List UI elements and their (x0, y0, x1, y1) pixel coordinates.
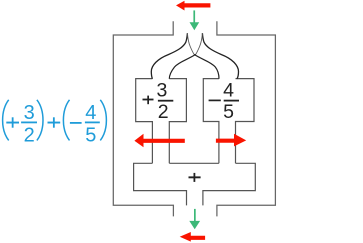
blue plus 1 (6, 122, 19, 124)
svg-text:4: 4 (85, 102, 96, 124)
right red arrow (value -4/5 crossed, points right) (216, 134, 246, 147)
left box (value box) left half + tube left wall down to plus box (136, 79, 153, 164)
svg-text:3: 3 (24, 102, 35, 124)
blue opening paren 2 (63, 100, 69, 141)
right box label: minus sign (209, 100, 221, 102)
blue closing paren 1 (37, 100, 43, 141)
svg-text:5: 5 (223, 101, 234, 123)
bottom green arrow (points down) (194, 209, 196, 222)
inner dome right side (194, 54, 219, 78)
funnel crossing thin guide right-to-left (196, 33, 203, 54)
funnel bell left (151, 33, 187, 79)
outer machine frame right part (217, 21, 276, 216)
right box (value box) left half + tube left wall (203, 79, 219, 164)
svg-text:2: 2 (158, 101, 169, 123)
right box right half + tube right wall (236, 79, 255, 164)
funnel bell right (202, 33, 238, 79)
svg-text:4: 4 (223, 80, 234, 102)
plus box plus sign (189, 176, 201, 178)
blue minus (70, 122, 82, 124)
blue middle plus (48, 122, 61, 124)
svg-text:3: 3 (156, 80, 167, 102)
left red arrow (value +3/2 crossed, points left) (134, 134, 184, 147)
plus box left portion with exit wall (134, 163, 187, 205)
left box right half + tube right wall (169, 79, 186, 164)
funnel crossing thin guide left-to-right (187, 33, 194, 54)
bottom red arrow (result, points left) (180, 232, 205, 242)
left box label: plus sign (143, 99, 154, 101)
blue closing paren 2 (100, 100, 106, 141)
top green arrow (input, points down) (193, 10, 195, 23)
svg-text:5: 5 (85, 124, 96, 146)
inner dome left side (169, 54, 195, 78)
plus box right portion with exit wall (203, 163, 255, 205)
top red arrow (result, points left) (176, 1, 210, 11)
plus box top middle segment (169, 162, 219, 164)
outer machine frame left part: top lip, top edge, left edge, bottom edge, bottom lip (113, 21, 173, 216)
blue expression: opening paren 1 (3, 100, 9, 141)
svg-text:2: 2 (24, 124, 35, 146)
